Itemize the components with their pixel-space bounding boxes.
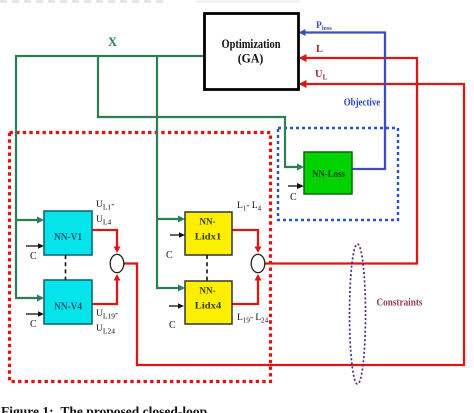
svg-text:Lidx4: Lidx4 xyxy=(195,302,222,312)
red arrowhead into L junction top xyxy=(255,247,262,254)
block NN-Loss xyxy=(304,152,352,194)
svg-text:NN-Loss: NN-Loss xyxy=(312,169,345,180)
svg-text:UL4: UL4 xyxy=(96,215,111,226)
label U_L19-U_L24 xyxy=(96,309,118,335)
faint cropped remnant along top edge xyxy=(0,0,300,3)
wire X branch to NN-Lidx1 and NN-Lidx4 xyxy=(157,57,181,288)
svg-text:UL24: UL24 xyxy=(96,324,115,335)
svg-text:(GA): (GA) xyxy=(238,51,264,66)
dashed ellipsis link NN-Lidx1 to NN-Lidx4 xyxy=(206,255,208,281)
optimization block GA xyxy=(205,14,299,90)
wire NN-Lidx4 output to sum junction xyxy=(232,279,258,304)
svg-text:Objective: Objective xyxy=(344,97,381,109)
svg-text:NN-V4: NN-V4 xyxy=(54,301,82,313)
wire NN-Lidx1 output to sum junction xyxy=(232,230,258,248)
red arrowhead U_L into GA xyxy=(299,80,307,88)
green arrowhead into NN-V1 xyxy=(37,217,44,224)
svg-text:UL19-: UL19- xyxy=(96,309,118,320)
red arrowhead into U_L junction top xyxy=(114,247,121,254)
block NN-Lidx1 xyxy=(185,212,232,255)
dotted blue objective-region box xyxy=(278,128,398,220)
svg-text:Lidx1: Lidx1 xyxy=(195,233,222,243)
svg-text:Figure 1: The proposed closed: Figure 1: The proposed closed-loop xyxy=(1,404,207,413)
wire X branch to NN-Loss xyxy=(98,57,300,167)
block NN-Lidx4 xyxy=(185,281,232,324)
junction node U_L sum xyxy=(110,254,124,272)
C input NN-V1 xyxy=(26,243,44,262)
svg-text:NN-V1: NN-V1 xyxy=(54,231,82,243)
svg-text:L: L xyxy=(316,44,323,55)
blue arrowhead P_loss into GA xyxy=(299,29,306,36)
svg-text:NN-: NN- xyxy=(200,287,216,297)
C input NN-Lidx1 xyxy=(166,232,185,261)
dashed ellipsis link NN-V1 to NN-V4 xyxy=(65,255,67,280)
wire U_L feedback: junction to GA xyxy=(124,84,465,365)
svg-text:Optimization: Optimization xyxy=(222,36,282,51)
green arrowhead into NN-Loss xyxy=(297,164,304,171)
svg-text:C: C xyxy=(30,251,37,262)
C input NN-Lidx4 xyxy=(169,303,184,331)
red arrowhead into L junction bottom xyxy=(255,274,262,281)
C input NN-Loss xyxy=(288,183,304,203)
green arrowhead into NN-Lidx1 xyxy=(178,216,185,223)
block NN-V1 xyxy=(44,211,92,255)
block NN-V4 xyxy=(44,280,92,324)
svg-text:Constraints: Constraints xyxy=(377,297,424,309)
dotted purple constraints ellipse xyxy=(350,244,366,384)
green arrowhead into NN-Lidx4 xyxy=(178,285,185,292)
svg-text:C: C xyxy=(166,250,173,261)
wire X bus: GA left to far-left vertical, into NN-V1 and NN-V4 xyxy=(16,56,204,298)
wire P_loss: NN-Loss output to GA (blue) xyxy=(305,33,385,170)
C input NN-V4 xyxy=(26,311,44,330)
red arrowhead L into GA xyxy=(299,54,307,62)
wire NN-V1 output to sum junction xyxy=(92,230,117,248)
dotted red constraints-region box xyxy=(10,133,271,382)
svg-text:C: C xyxy=(30,319,37,330)
red arrowhead into U_L junction bottom xyxy=(114,274,121,281)
wire NN-V4 output to sum junction xyxy=(92,279,117,304)
svg-text:NN-: NN- xyxy=(200,218,216,228)
green arrowhead into NN-V4 xyxy=(37,295,44,302)
svg-text:C: C xyxy=(290,192,297,203)
svg-text:C: C xyxy=(169,320,176,331)
wire L feedback: junction to GA xyxy=(265,58,418,264)
svg-text:X: X xyxy=(108,35,117,49)
svg-text:UL1-: UL1- xyxy=(96,200,114,211)
label U_L1-U_L4 xyxy=(96,200,114,226)
junction node L sum xyxy=(251,254,265,272)
